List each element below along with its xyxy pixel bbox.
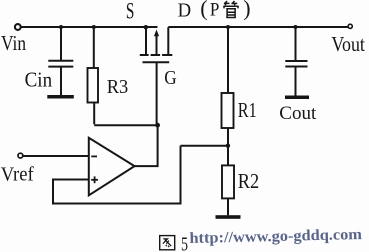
wire noninverting input feedback loop <box>53 146 181 204</box>
resistor R2 <box>222 146 234 216</box>
svg-text:S: S <box>126 0 134 24</box>
wire op-amp output to gate node <box>135 125 158 166</box>
caption 图 5 <box>160 236 175 250</box>
terminal Vref <box>18 153 23 158</box>
svg-text:(: ( <box>200 0 207 21</box>
svg-text:R3: R3 <box>107 76 129 98</box>
resistor R3 <box>88 27 99 124</box>
terminal Vin <box>15 24 21 30</box>
svg-text:Vin: Vin <box>1 31 26 55</box>
svg-text:R1: R1 <box>238 98 257 122</box>
node R1 junction <box>226 25 230 29</box>
glyph 管 <box>224 1 238 18</box>
node Cin junction <box>59 25 63 29</box>
wire feedback junction to riser <box>181 145 228 147</box>
ground (Cout) <box>285 96 309 100</box>
ground (Cin) <box>47 95 74 99</box>
svg-text:R2: R2 <box>238 169 259 193</box>
svg-text:Vout: Vout <box>331 32 365 56</box>
node R3 junction <box>92 25 96 29</box>
svg-text:Cout: Cout <box>279 103 317 124</box>
capacitor Cin <box>48 27 73 95</box>
resistor R1 <box>222 27 234 146</box>
wire R3 bottom to gate node <box>94 124 157 126</box>
node source junction <box>144 25 148 29</box>
op-amp U1 <box>89 138 135 196</box>
svg-text:): ) <box>243 0 250 21</box>
node feedback junction <box>226 144 230 148</box>
node Cout junction <box>294 25 298 29</box>
svg-text:D: D <box>178 0 192 22</box>
svg-text:http://www.go-gddq.com: http://www.go-gddq.com <box>189 226 362 247</box>
svg-text:5: 5 <box>181 234 188 252</box>
svg-text:Vref: Vref <box>1 164 34 186</box>
node gate junction <box>155 123 160 128</box>
transistor Q1 PMOS <box>140 27 173 125</box>
svg-text:G: G <box>164 67 177 89</box>
svg-text:P: P <box>210 0 220 21</box>
ground (R2) <box>216 215 241 219</box>
wire top rail left (Vin to PMOS source) <box>21 26 158 28</box>
wire Vref to inverting input <box>23 155 88 157</box>
wire top rail right (PMOS drain to Vout) <box>168 26 348 28</box>
capacitor Cout <box>285 27 307 96</box>
terminal Vout <box>348 24 352 28</box>
svg-text:Cin: Cin <box>25 68 53 92</box>
